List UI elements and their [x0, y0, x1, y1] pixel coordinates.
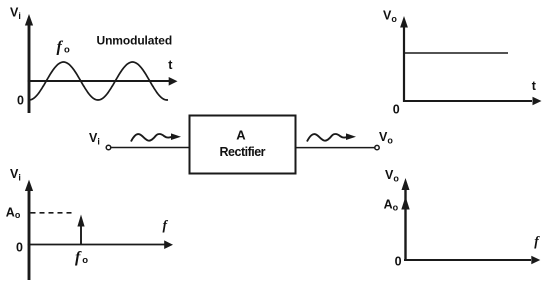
svg-text:A: A	[236, 128, 246, 143]
svg-text:Ao: Ao	[6, 205, 21, 220]
wire DC output level line	[405, 52, 508, 54]
wire t-axis (top-left graph)	[28, 77, 178, 86]
wire input lead	[111, 147, 189, 149]
node spectral line at fo (arrow spike)	[77, 215, 84, 245]
svg-text:f: f	[75, 249, 82, 266]
svg-text:Vi: Vi	[10, 6, 21, 22]
svg-text:Vo: Vo	[383, 8, 397, 24]
wire output signal squiggle arrow	[307, 133, 356, 141]
wire input signal squiggle arrow	[131, 133, 181, 141]
svg-text:0: 0	[393, 103, 400, 117]
svg-text:Vi: Vi	[10, 167, 21, 183]
node Vi input spectrum graph: vertical axis	[25, 180, 33, 280]
svg-text:Rectifier: Rectifier	[220, 145, 266, 159]
wire f-axis (bottom-left graph)	[28, 240, 173, 249]
svg-text:t: t	[168, 58, 173, 72]
node Vo output waveform graph: vertical axis	[400, 16, 408, 102]
svg-text:o: o	[82, 255, 88, 266]
svg-text:f: f	[534, 234, 540, 249]
node Vi input waveform graph: vertical axis	[25, 14, 33, 113]
svg-text:Vo: Vo	[379, 130, 393, 146]
svg-text:f: f	[163, 217, 169, 232]
svg-text:0: 0	[16, 241, 23, 255]
svg-text:Unmodulated: Unmodulated	[97, 33, 173, 47]
svg-text:f: f	[57, 39, 64, 56]
node DC spectral line at f=0 (arrow spike on axis)	[401, 197, 409, 210]
svg-text:0: 0	[395, 255, 402, 269]
svg-text:t: t	[532, 79, 537, 93]
wire f-axis (bottom-right graph)	[404, 256, 540, 264]
svg-text:Vi: Vi	[89, 131, 100, 147]
wire t-axis (top-right graph)	[403, 97, 542, 105]
svg-text:o: o	[64, 45, 70, 56]
node Vo output spectrum graph: vertical axis	[402, 178, 410, 260]
terminal Vi (open circle)	[106, 145, 111, 150]
svg-text:0: 0	[17, 93, 24, 107]
terminal Vo (open circle)	[375, 145, 379, 149]
block U1 rectifier box	[190, 116, 296, 174]
wire sine wave (unmodulated carrier)	[30, 62, 168, 100]
svg-text:Vo: Vo	[385, 168, 399, 184]
wire output lead	[296, 147, 375, 149]
wire dashed amplitude level line	[31, 212, 75, 214]
svg-text:Ao: Ao	[384, 198, 399, 213]
